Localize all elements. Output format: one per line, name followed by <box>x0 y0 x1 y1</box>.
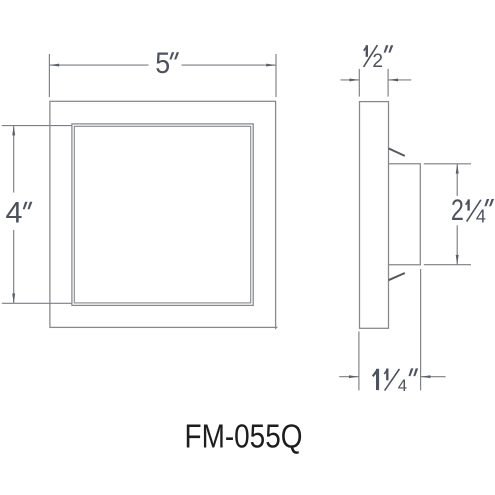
side view housing box <box>389 164 421 265</box>
front view inner frame inner line <box>74 126 250 303</box>
4 inch dim: extension lines <box>2 126 72 304</box>
1 1/4 inch dim: extension lines <box>359 269 421 390</box>
5 inch dim: extension lines <box>49 54 276 97</box>
1 1/4 inch label: fraction slash <box>385 369 400 391</box>
2 1/4 inch label: fraction one <box>465 199 470 210</box>
half inch label: fraction one <box>363 45 368 57</box>
svg-text:4: 4 <box>398 376 407 395</box>
outer square corner overshoot <box>276 327 278 329</box>
half inch label: fraction slash <box>364 45 378 67</box>
half inch prime marks <box>384 45 394 52</box>
1 1/4 inch prime marks <box>409 368 419 376</box>
svg-text:2: 2 <box>451 194 464 227</box>
1 1/4 inch label: fraction one <box>384 369 389 381</box>
2 1/4 inch prime marks <box>484 199 494 206</box>
svg-text:FM-055Q: FM-055Q <box>185 417 303 455</box>
4 inch prime marks <box>23 202 33 210</box>
2 1/4 inch label: fraction slash <box>467 200 481 222</box>
4 inch dim: dimension line <box>12 126 15 304</box>
1 1/4 inch dim: arrows outside <box>339 375 445 378</box>
front view outer square (5 inch trim) <box>50 101 276 327</box>
bottom spring clip tick <box>389 273 405 280</box>
svg-text:4: 4 <box>476 207 486 227</box>
5 inch prime marks <box>169 52 179 59</box>
2 1/4 inch dim: dimension line <box>456 164 459 265</box>
half inch dim: extension lines <box>359 69 388 97</box>
1 1/4 inch label: one <box>372 369 379 390</box>
svg-text:5: 5 <box>155 47 170 80</box>
svg-text:2: 2 <box>372 51 383 72</box>
svg-text:4: 4 <box>6 196 23 229</box>
front view inner frame outer line <box>72 124 253 306</box>
5 inch dim: dimension line <box>49 64 276 67</box>
half inch dim: arrows outside <box>341 78 412 81</box>
side view plate <box>360 102 389 329</box>
2 1/4 inch dim: extension lines <box>424 164 471 265</box>
top spring clip tick <box>389 148 405 156</box>
